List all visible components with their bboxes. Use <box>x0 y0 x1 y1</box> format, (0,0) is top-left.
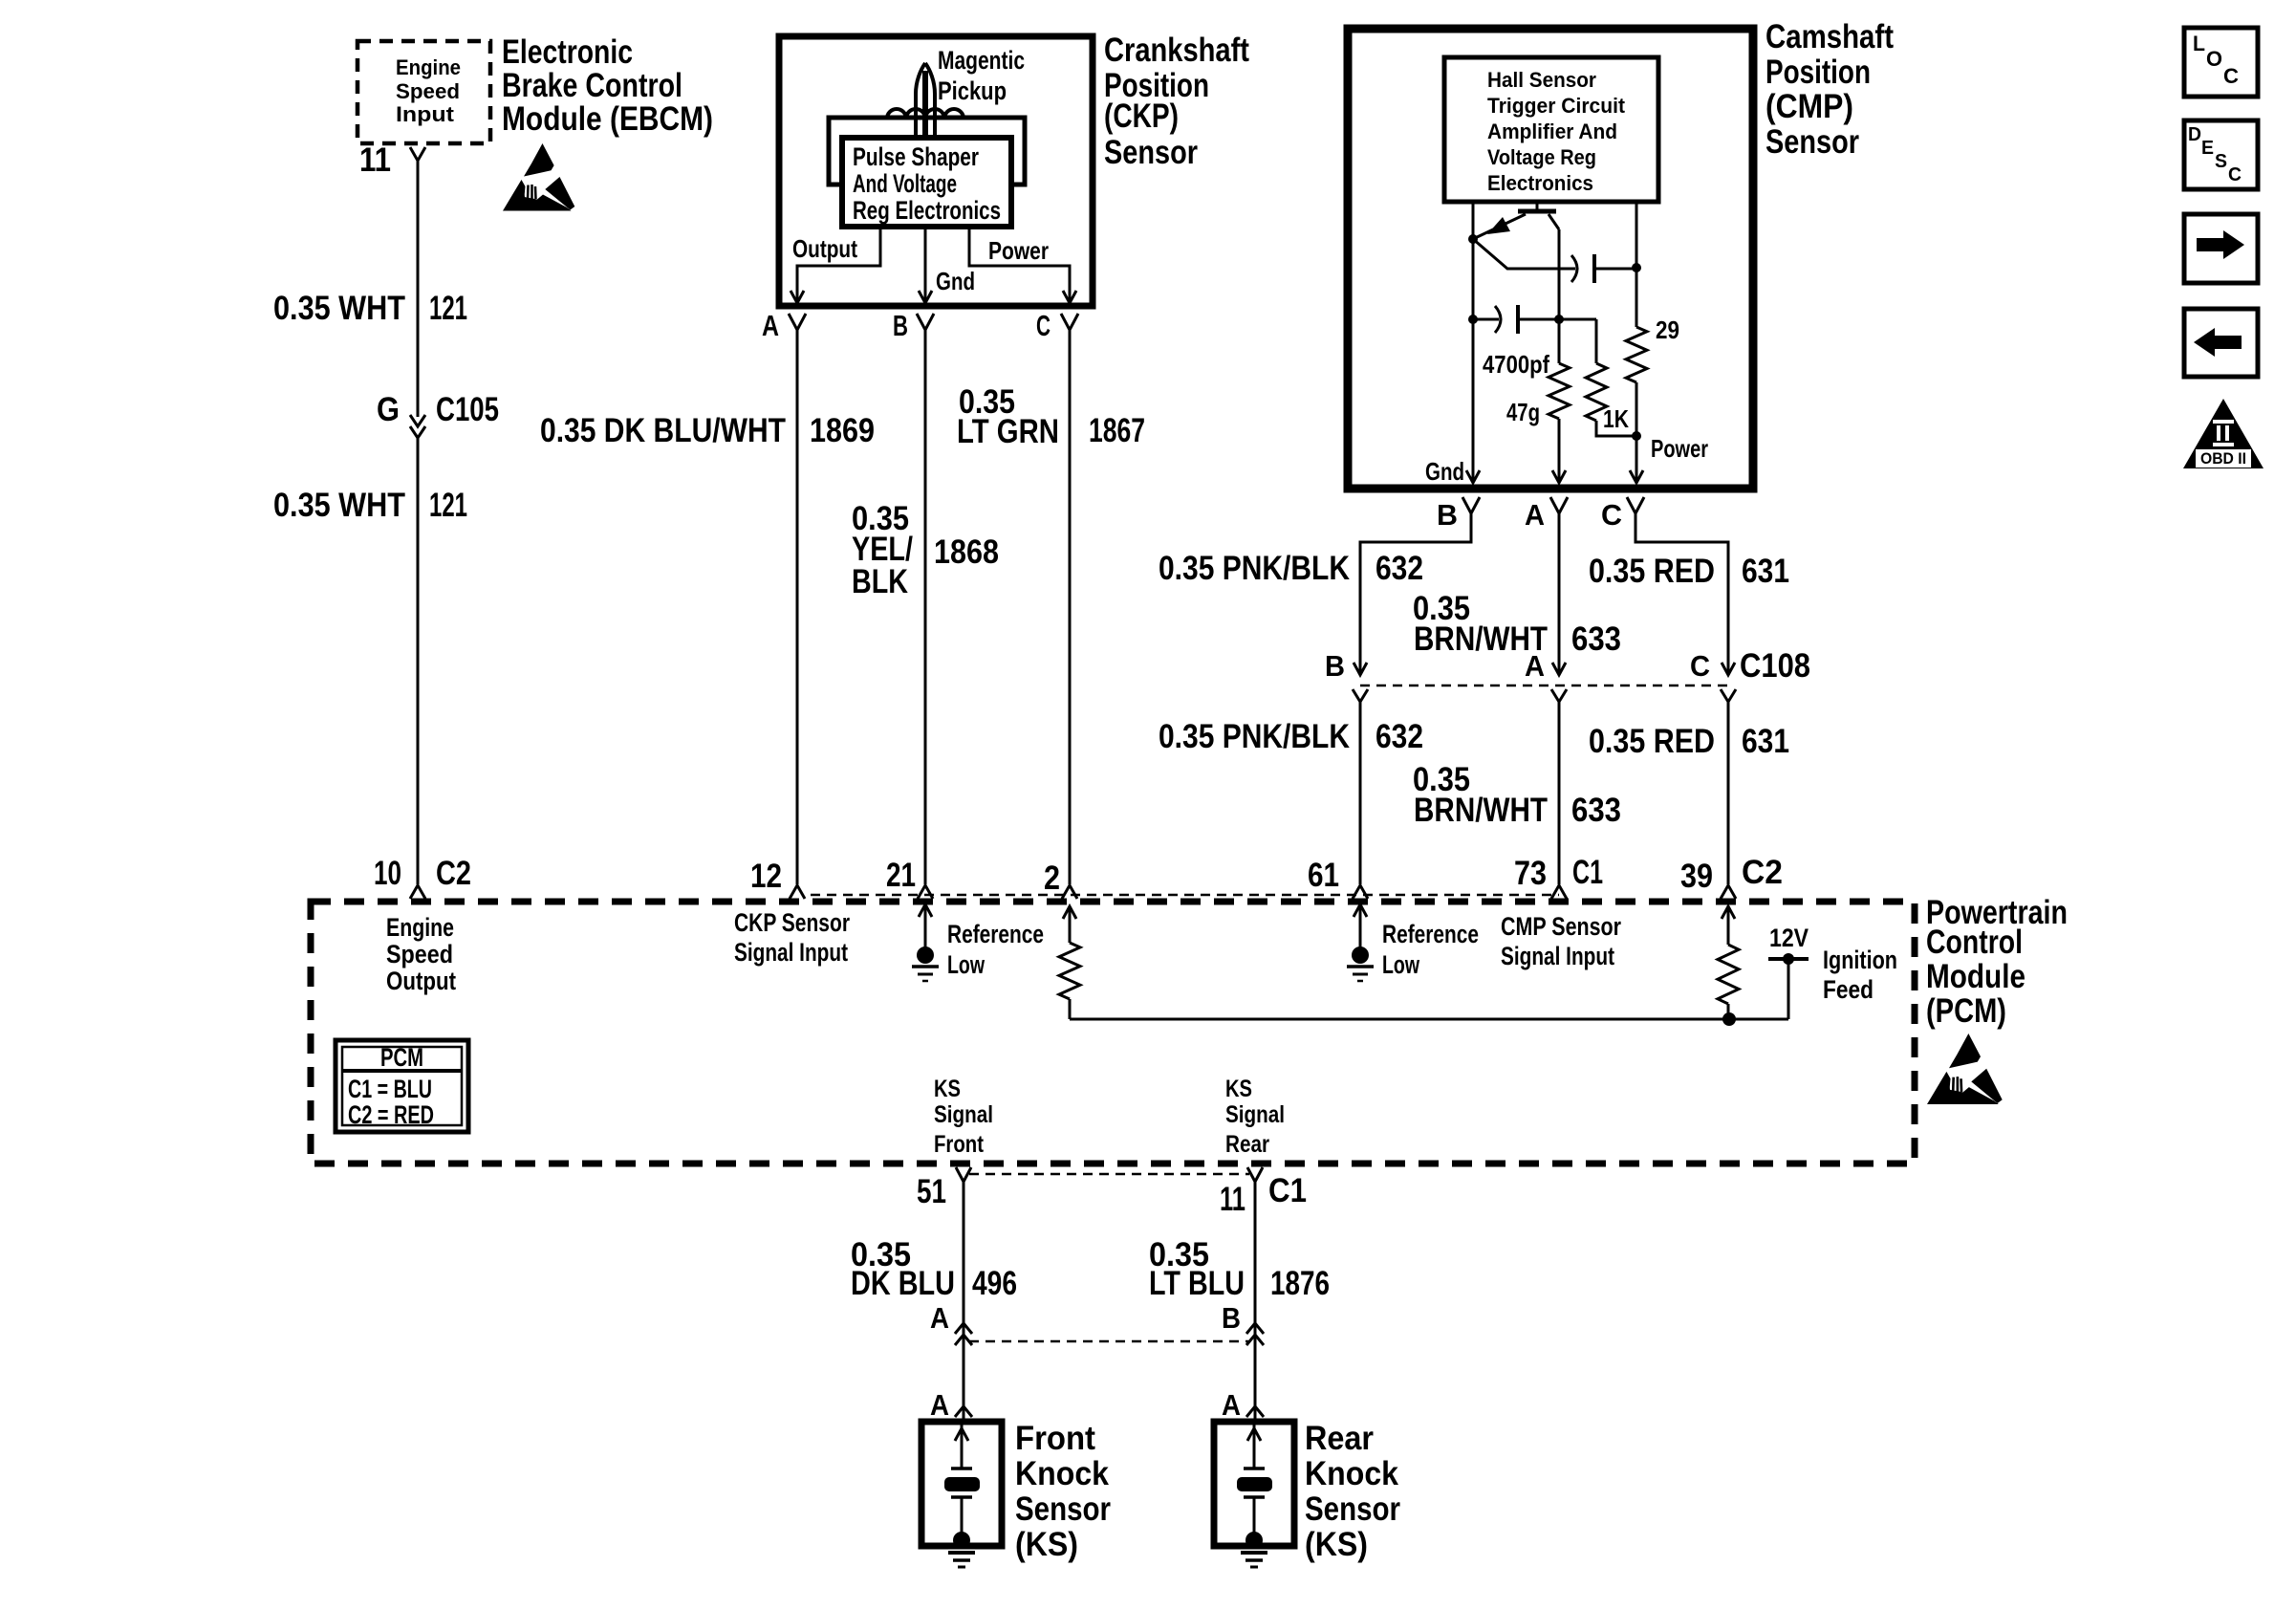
inline connector G C105 <box>377 391 499 438</box>
svg-text:Trigger Circuit: Trigger Circuit <box>1487 94 1626 118</box>
capacitor C2 (lower, 4700pf) <box>1473 305 1596 334</box>
svg-text:Input: Input <box>396 102 455 126</box>
arrow B at CMP box bottom <box>1466 470 1480 483</box>
terminal 11 C1 below PCM <box>1220 1167 1307 1218</box>
wire Power stub <box>969 227 1070 302</box>
inline connector A (front KS harness) <box>930 1301 972 1345</box>
svg-text:Gnd: Gnd <box>1425 457 1464 486</box>
node cap1 right junction <box>1632 263 1641 272</box>
svg-text:Module: Module <box>1926 958 2025 995</box>
svg-text:KS: KS <box>1225 1076 1252 1102</box>
svg-text:631: 631 <box>1742 553 1789 590</box>
pin C connector of CMP <box>1601 497 1644 532</box>
node cap2 left junction <box>1468 315 1478 324</box>
svg-text:632: 632 <box>1375 718 1423 755</box>
svg-text:496: 496 <box>972 1265 1017 1302</box>
svg-text:39: 39 <box>1680 858 1713 895</box>
svg-text:OBD II: OBD II <box>2200 449 2246 468</box>
label 0.35 RED 631 (upper) <box>1589 553 1789 590</box>
svg-text:Speed: Speed <box>396 79 460 103</box>
svg-text:A: A <box>930 1301 949 1335</box>
pin A connector at rear KS <box>1222 1388 1264 1422</box>
svg-text:C105: C105 <box>436 391 499 428</box>
svg-text:A: A <box>1525 498 1545 532</box>
wire 12V bus <box>1070 1018 1788 1021</box>
svg-text:Feed: Feed <box>1823 975 1874 1004</box>
front knock sensor box <box>921 1422 1002 1549</box>
label Powertrain Control Module (PCM) <box>1926 894 2068 1030</box>
svg-text:Low: Low <box>947 950 986 979</box>
arrow C at CMP box bottom <box>1630 470 1643 483</box>
coil frame rectangle <box>829 118 1025 185</box>
svg-text:1867: 1867 <box>1089 412 1145 449</box>
svg-text:29: 29 <box>1656 315 1679 344</box>
node A cap2 junction <box>1554 315 1564 324</box>
svg-text:C: C <box>1601 498 1622 532</box>
transistor Q1 <box>1473 202 1559 239</box>
svg-text:Sensor: Sensor <box>1765 123 1859 161</box>
svg-text:12: 12 <box>750 858 782 895</box>
svg-text:Signal: Signal <box>1225 1101 1285 1128</box>
svg-text:C2: C2 <box>1742 854 1783 891</box>
label 0.35 PNK/BLK 632 (upper) <box>1159 550 1423 587</box>
label 0.35 DK BLU/WHT 1869 <box>540 412 875 449</box>
svg-text:(KS): (KS) <box>1015 1526 1078 1563</box>
svg-text:Signal Input: Signal Input <box>1501 942 1614 970</box>
magnetic pickup probe <box>916 63 935 139</box>
label CMP Sensor Signal Input <box>1501 912 1621 970</box>
reference low ground (CMP) <box>1347 904 1374 981</box>
wire 1876 LT BLU <box>1254 1182 1257 1422</box>
svg-text:S: S <box>2215 151 2227 172</box>
svg-text:11: 11 <box>1220 1181 1245 1218</box>
resistor inside PCM on CMP power <box>1718 906 1739 1019</box>
arrow Gnd <box>919 291 932 303</box>
svg-text:121: 121 <box>429 487 467 524</box>
wire 631 RED lower <box>1727 702 1730 884</box>
arrow Output <box>791 291 804 303</box>
wire 1867 LT GRN <box>1069 330 1072 884</box>
svg-text:(CMP): (CMP) <box>1765 88 1853 125</box>
svg-text:O: O <box>2206 47 2222 71</box>
svg-text:C: C <box>2223 64 2239 88</box>
svg-text:0.35 DK BLU/WHT: 0.35 DK BLU/WHT <box>540 412 786 449</box>
svg-text:Control: Control <box>1926 924 2023 961</box>
svg-text:Engine: Engine <box>396 55 461 79</box>
svg-text:B: B <box>893 309 908 342</box>
svg-text:Sensor: Sensor <box>1305 1490 1400 1528</box>
ground at rear KS <box>1241 1553 1267 1567</box>
svg-text:Power: Power <box>1651 434 1708 463</box>
ESD symbol (PCM) <box>1927 1033 2003 1104</box>
wire 631 RED upper <box>1635 513 1728 675</box>
wire 633 BRN/WHT upper <box>1558 513 1561 675</box>
pulse shaper box <box>842 138 1011 227</box>
svg-text:Ignition: Ignition <box>1823 946 1897 974</box>
svg-text:Amplifier And: Amplifier And <box>1487 120 1617 143</box>
svg-text:1876: 1876 <box>1270 1265 1330 1302</box>
svg-text:Sensor: Sensor <box>1015 1490 1111 1528</box>
svg-text:0.35 RED: 0.35 RED <box>1589 723 1715 760</box>
svg-text:633: 633 <box>1571 620 1621 658</box>
svg-text:KS: KS <box>934 1076 961 1102</box>
ground at front KS <box>948 1553 975 1567</box>
12V ignition feed <box>1768 924 1897 1019</box>
node emitter junction <box>1468 234 1478 244</box>
svg-text:PCM: PCM <box>380 1043 423 1072</box>
svg-text:Pulse Shaper: Pulse Shaper <box>853 142 979 171</box>
inline connector B (rear KS harness) <box>1222 1301 1264 1345</box>
svg-text:Electronics: Electronics <box>1487 171 1593 195</box>
pin B connector of CKP <box>893 309 934 342</box>
svg-text:(PCM): (PCM) <box>1926 992 2006 1030</box>
svg-text:1869: 1869 <box>810 412 875 449</box>
svg-text:Reference: Reference <box>1382 920 1479 948</box>
svg-text:LT GRN: LT GRN <box>957 413 1059 450</box>
PCM dashed box <box>311 902 1915 1164</box>
CMP sensor box <box>1348 29 1753 489</box>
LOC nav icon <box>2184 28 2258 97</box>
svg-text:Low: Low <box>1382 950 1420 979</box>
svg-text:Gnd: Gnd <box>936 267 975 295</box>
reference low ground (CKP) <box>912 904 1044 981</box>
svg-text:47g: 47g <box>1506 398 1540 426</box>
svg-text:Hall Sensor: Hall Sensor <box>1487 68 1596 92</box>
label CKP Sensor Signal Input <box>734 908 850 967</box>
svg-text:73: 73 <box>1514 855 1547 892</box>
DESC nav icon <box>2184 120 2258 189</box>
svg-text:Crankshaft: Crankshaft <box>1104 32 1249 69</box>
svg-text:0.35 WHT: 0.35 WHT <box>273 487 405 524</box>
svg-text:2: 2 <box>1044 859 1060 897</box>
svg-text:B: B <box>1222 1301 1241 1335</box>
svg-text:Signal Input: Signal Input <box>734 938 848 967</box>
svg-text:C1: C1 <box>1572 854 1603 891</box>
svg-text:C: C <box>1690 649 1710 683</box>
svg-text:Rear: Rear <box>1305 1420 1374 1457</box>
wire Gnd (B) inside CMP <box>1472 202 1475 482</box>
svg-text:D: D <box>2188 124 2201 145</box>
node 12V bus junction <box>1722 1012 1736 1026</box>
svg-text:11: 11 <box>359 141 391 179</box>
label KS Signal Rear <box>1225 1076 1285 1158</box>
svg-text:632: 632 <box>1375 550 1423 587</box>
terminal 10 C2 at PCM <box>374 855 471 899</box>
svg-text:Speed: Speed <box>386 940 453 968</box>
svg-text:0.35 PNK/BLK: 0.35 PNK/BLK <box>1159 718 1350 755</box>
PCM connector legend box <box>336 1040 468 1132</box>
rear knock sensor box <box>1214 1422 1294 1549</box>
pin A connector of CKP <box>762 309 806 342</box>
pin B connector of CMP <box>1437 497 1480 532</box>
svg-text:G: G <box>377 391 400 428</box>
label Electronic Brake Control Module (EBCM) <box>502 33 713 138</box>
label 0.35 WHT 121 (lower) <box>273 487 467 524</box>
svg-text:51: 51 <box>917 1173 946 1210</box>
svg-text:21: 21 <box>886 857 916 894</box>
terminal 51 below PCM <box>917 1167 971 1210</box>
connector row dashed line below PCM <box>969 1173 1249 1176</box>
label KS Signal Front <box>934 1076 993 1158</box>
pin 11 connector at EBCM <box>359 141 425 179</box>
svg-text:Voltage Reg: Voltage Reg <box>1487 145 1596 169</box>
svg-text:(CKP): (CKP) <box>1104 98 1179 135</box>
svg-text:12V: 12V <box>1769 924 1809 952</box>
svg-text:C2: C2 <box>436 855 471 892</box>
wire 496 DK BLU <box>963 1182 965 1422</box>
terminal 12 at PCM <box>750 858 805 899</box>
resistor 47g on A wire <box>1549 363 1570 419</box>
label 0.35 BRN/WHT 633 (upper) <box>1413 590 1621 658</box>
svg-text:C: C <box>2228 164 2242 185</box>
svg-text:CMP Sensor: CMP Sensor <box>1501 912 1621 941</box>
wire collector (A) inside CMP <box>1558 229 1561 482</box>
wire Gnd stub <box>924 227 927 302</box>
label Magentic Pickup <box>938 46 1025 105</box>
svg-text:61: 61 <box>1308 857 1339 894</box>
hall sensor electronics box <box>1444 57 1658 202</box>
label Reference Low (CMP) <box>1382 920 1479 979</box>
connector C1 row dashed line <box>811 894 1559 897</box>
svg-text:633: 633 <box>1571 792 1621 829</box>
svg-text:And Voltage: And Voltage <box>853 169 957 198</box>
svg-text:Rear: Rear <box>1225 1131 1269 1158</box>
back arrow icon <box>2184 309 2258 377</box>
svg-text:Module (EBCM): Module (EBCM) <box>502 100 713 138</box>
inline connector dashed line <box>969 1340 1248 1343</box>
svg-text:C2 = RED: C2 = RED <box>348 1100 434 1129</box>
svg-text:C108: C108 <box>1740 647 1810 685</box>
label 0.35 BRN/WHT 633 (lower) <box>1413 761 1621 829</box>
svg-text:Knock: Knock <box>1305 1455 1398 1492</box>
svg-text:Power: Power <box>988 236 1049 265</box>
label Front Knock Sensor (KS) <box>1015 1420 1111 1563</box>
svg-text:0.35 PNK/BLK: 0.35 PNK/BLK <box>1159 550 1350 587</box>
wire 632 PNK/BLK upper <box>1360 513 1471 675</box>
svg-text:A: A <box>762 309 779 342</box>
pin A connector of CMP <box>1525 497 1568 532</box>
arrow Power <box>1063 291 1076 303</box>
arrow A at CMP box bottom <box>1552 470 1566 483</box>
svg-text:Position: Position <box>1765 54 1871 91</box>
next arrow icon <box>2184 214 2258 283</box>
label Engine Speed Output <box>386 913 456 995</box>
pin C connector of CKP <box>1036 309 1078 342</box>
svg-text:Signal: Signal <box>934 1101 993 1128</box>
OBD II icon <box>2183 399 2264 468</box>
svg-text:Knock: Knock <box>1015 1455 1109 1492</box>
svg-text:A: A <box>1222 1388 1241 1422</box>
EBCM Engine Speed Input dashed box <box>357 41 490 143</box>
svg-text:Front: Front <box>934 1131 985 1158</box>
svg-text:Output: Output <box>792 234 857 263</box>
svg-text:L: L <box>2193 32 2205 55</box>
terminal 73 C1 at PCM <box>1514 854 1603 899</box>
svg-text:10: 10 <box>374 855 401 892</box>
svg-text:1868: 1868 <box>934 533 999 571</box>
label 0.35 YEL/BLK 1868 <box>852 500 999 600</box>
svg-text:Engine: Engine <box>386 913 454 942</box>
svg-text:Reg Electronics: Reg Electronics <box>853 196 1001 225</box>
label Camshaft Position (CMP) Sensor <box>1765 18 1894 161</box>
wire 1869 DK BLU/WHT <box>796 330 799 884</box>
svg-text:0.35 WHT: 0.35 WHT <box>273 290 405 327</box>
svg-text:Magentic: Magentic <box>938 46 1025 75</box>
svg-text:0.35 RED: 0.35 RED <box>1589 553 1715 590</box>
terminal 61 at PCM <box>1308 857 1368 899</box>
resistor 1K <box>1586 319 1636 436</box>
svg-text:B: B <box>1325 649 1345 683</box>
resistor 29 on C wire <box>1626 315 1679 382</box>
label 0.35 WHT 121 (upper) <box>273 290 467 327</box>
label 0.35 LT BLU 1876 <box>1149 1236 1330 1302</box>
svg-text:BLK: BLK <box>852 563 908 600</box>
svg-text:A: A <box>930 1388 949 1422</box>
svg-text:Pickup: Pickup <box>938 76 1007 105</box>
wire 121 WHT lower segment <box>417 438 420 884</box>
svg-text:4700pf: 4700pf <box>1483 350 1549 379</box>
svg-text:C: C <box>1036 309 1051 342</box>
ESD symbol (EBCM) <box>503 143 574 211</box>
svg-text:E: E <box>2201 138 2214 159</box>
label Rear Knock Sensor (KS) <box>1305 1420 1400 1563</box>
svg-text:Brake Control: Brake Control <box>502 67 682 104</box>
label 0.35 RED 631 (lower) <box>1589 723 1789 760</box>
svg-text:1K: 1K <box>1603 404 1629 433</box>
svg-text:DK BLU: DK BLU <box>851 1265 955 1302</box>
wire Output stub <box>797 227 880 302</box>
svg-text:LT BLU: LT BLU <box>1149 1265 1245 1302</box>
wire 121 WHT upper segment <box>417 161 420 417</box>
capacitor C1 (upper) <box>1473 239 1636 283</box>
node power junction <box>1632 431 1641 441</box>
wire Power (C) inside CMP <box>1635 202 1638 482</box>
svg-text:Output: Output <box>386 967 456 995</box>
svg-text:CKP Sensor: CKP Sensor <box>734 908 850 937</box>
svg-text:121: 121 <box>429 290 467 327</box>
label 0.35 PNK/BLK 632 (lower) <box>1159 718 1423 755</box>
svg-text:Camshaft: Camshaft <box>1765 18 1894 55</box>
svg-text:Front: Front <box>1015 1420 1095 1457</box>
wire 633 BRN/WHT lower <box>1558 702 1561 884</box>
svg-text:631: 631 <box>1742 723 1789 760</box>
svg-text:B: B <box>1437 498 1458 532</box>
terminal 2 at PCM <box>1044 859 1077 899</box>
label 0.35 LT GRN 1867 <box>957 383 1145 450</box>
svg-text:Sensor: Sensor <box>1104 134 1198 171</box>
resistor inside PCM on CKP power <box>1059 906 1080 1019</box>
svg-text:Reference: Reference <box>947 920 1044 948</box>
label Crankshaft Position (CKP) Sensor <box>1104 32 1249 171</box>
svg-text:(KS): (KS) <box>1305 1526 1368 1563</box>
wire 1868 YEL/BLK <box>924 330 927 884</box>
pin A connector at front KS <box>930 1388 972 1422</box>
connector C108 row <box>1325 647 1810 702</box>
svg-text:C1 = BLU: C1 = BLU <box>348 1075 432 1103</box>
label 0.35 DK BLU 496 <box>851 1236 1017 1302</box>
svg-text:BRN/WHT: BRN/WHT <box>1414 792 1548 829</box>
svg-text:C1: C1 <box>1268 1172 1307 1209</box>
terminal 21 at PCM <box>886 857 933 899</box>
pickup coil <box>887 109 964 119</box>
terminal 39 C2 at PCM <box>1680 854 1783 899</box>
svg-text:A: A <box>1525 649 1545 683</box>
wire 632 PNK/BLK lower <box>1359 702 1362 884</box>
svg-text:Electronic: Electronic <box>502 33 633 71</box>
CKP sensor box <box>779 36 1093 306</box>
